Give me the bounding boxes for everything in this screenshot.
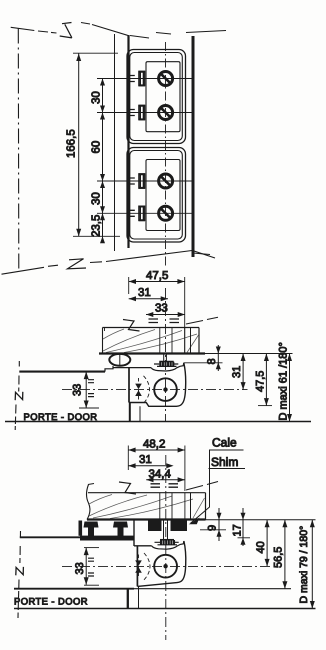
dim 31 line (bottom view) bbox=[128, 465, 170, 467]
plate 2 recess bbox=[146, 160, 180, 231]
top break line bbox=[11, 27, 35, 30]
Z break on frame top bbox=[123, 320, 140, 332]
dim 33 line bbox=[146, 314, 185, 316]
dim D maxi 61/180 (middle right) bbox=[289, 354, 291, 422]
dimension 166,5 line bbox=[78, 54, 80, 237]
door edge vertical (bottom view) bbox=[133, 519, 135, 547]
dim D maxi 79/180 (bottom right) bbox=[311, 520, 313, 609]
svg-text:33: 33 bbox=[74, 562, 86, 574]
svg-text:30: 30 bbox=[91, 192, 103, 205]
svg-text:PORTE - DOOR: PORTE - DOOR bbox=[14, 596, 88, 607]
hinge plate 1 outer bbox=[127, 50, 186, 144]
screw A2 bbox=[159, 106, 173, 120]
frame jamb thick line bbox=[127, 35, 129, 248]
dimension chain line bbox=[102, 79, 104, 244]
dim 33 vertical (bottom view) bbox=[85, 548, 87, 585]
dim 48,2 line bbox=[128, 449, 185, 451]
svg-text:34,4: 34,4 bbox=[149, 469, 172, 481]
svg-text:31: 31 bbox=[139, 454, 152, 466]
door edge below hinge (bottom view) bbox=[127, 589, 129, 609]
profile cut end block bbox=[79, 521, 83, 536]
Z break frame top (bottom view) bbox=[119, 482, 136, 494]
wall centerline left (dash-dot) bbox=[17, 29, 20, 271]
hinge plate 2 outer bbox=[127, 148, 186, 243]
door bottom line (bottom view) bbox=[14, 608, 316, 610]
dim 31 line bbox=[129, 298, 168, 300]
pivot circle (middle) bbox=[154, 378, 177, 401]
dim 34,4 line bbox=[146, 479, 185, 481]
plate centerline vertical (dash-dot) bbox=[165, 42, 167, 266]
frame grain (bottom view) bbox=[89, 495, 205, 519]
dim 17 (bottom right) bbox=[242, 508, 244, 546]
svg-text:40: 40 bbox=[255, 541, 267, 553]
roller ellipse bbox=[109, 354, 130, 366]
frame top edge right bbox=[186, 31, 226, 33]
svg-text:31: 31 bbox=[138, 287, 151, 299]
door top thin line (bottom view) bbox=[20, 536, 80, 538]
svg-text:31: 31 bbox=[231, 366, 243, 378]
door left break (middle) bbox=[18, 361, 21, 392]
svg-text:D maxi 61 /180°: D maxi 61 /180° bbox=[277, 342, 289, 420]
hinge axis centerline (bottom) bbox=[62, 565, 272, 567]
hinge plate 1 inner bbox=[130, 53, 183, 141]
shim bottom stub bbox=[200, 529, 226, 531]
set screw bowtie (middle) bbox=[135, 384, 142, 396]
svg-text:Shim: Shim bbox=[211, 455, 238, 469]
frame right edge (bottom view) bbox=[205, 493, 207, 520]
svg-text:60: 60 bbox=[91, 141, 103, 154]
door bottom line (middle) bbox=[5, 421, 311, 423]
frame bottom reference line bbox=[99, 352, 205, 354]
hinge body (middle view) bbox=[128, 368, 130, 403]
screw nut serrated (bottom view) bbox=[160, 539, 174, 541]
set screw bowtie (bottom) bbox=[135, 560, 142, 572]
svg-text:17: 17 bbox=[232, 524, 244, 536]
screw B1 bbox=[159, 174, 173, 188]
frame grain hatching bbox=[103, 329, 199, 353]
dim 40 (bottom right) bbox=[266, 520, 268, 567]
screw B2 bbox=[159, 206, 173, 220]
frame inner vertical (bottom view) bbox=[190, 493, 192, 520]
equality marks 34,4 bbox=[151, 484, 179, 487]
screw shank through shim (bottom view) bbox=[164, 520, 168, 540]
svg-text:33: 33 bbox=[72, 384, 84, 396]
pivot vertical centerline (middle) bbox=[165, 288, 167, 421]
svg-text:23,5: 23,5 bbox=[91, 215, 103, 237]
hidden hole dashes (middle body) bbox=[144, 376, 150, 403]
screw A1 bbox=[159, 72, 173, 86]
door left break (bottom view) bbox=[19, 531, 22, 563]
bottom break line bbox=[2, 267, 45, 274]
swing dash (bottom view) bbox=[186, 482, 218, 491]
bottom tick right bbox=[193, 253, 210, 255]
dim 56,5 (bottom right) bbox=[284, 520, 286, 589]
svg-text:8: 8 bbox=[206, 358, 218, 364]
svg-text:48,2: 48,2 bbox=[143, 439, 165, 451]
frame jamb thin line bbox=[114, 34, 116, 251]
spring serration (middle) bbox=[164, 354, 167, 362]
frame bottom reference line (bottom view) bbox=[87, 518, 206, 520]
break zigzag top bbox=[60, 23, 72, 38]
frame section top line (bottom view) bbox=[88, 492, 199, 494]
frame section right edge bbox=[198, 328, 200, 354]
door inner web line (bottom view) bbox=[14, 588, 134, 590]
svg-text:30: 30 bbox=[91, 91, 103, 104]
door top face (middle view) bbox=[19, 371, 105, 373]
svg-text:9: 9 bbox=[207, 525, 219, 531]
svg-text:PORTE - DOOR: PORTE - DOOR bbox=[24, 411, 98, 422]
door edge below hinge (middle) bbox=[129, 403, 131, 422]
svg-text:47,5: 47,5 bbox=[146, 270, 168, 282]
hinge plate 2 inner bbox=[130, 151, 183, 240]
screw centerlines horizontal bbox=[97, 79, 192, 214]
countersunk screw side tabs bbox=[130, 76, 135, 217]
svg-text:D maxi 79 / 180°: D maxi 79 / 180° bbox=[298, 526, 310, 604]
dim 31 (middle right) bbox=[242, 354, 244, 390]
dim 33 vertical (middle) bbox=[85, 372, 87, 408]
svg-text:47,5: 47,5 bbox=[255, 371, 267, 392]
frame left cut (bottom view) bbox=[87, 485, 90, 520]
leader from Shim to shim block bbox=[191, 450, 210, 523]
dim 47,5 line bbox=[129, 281, 185, 283]
door profile top bar (bottom view) bbox=[80, 536, 134, 541]
hinge body (bottom view) bbox=[136, 546, 138, 587]
dim 47,5 (middle right) bbox=[265, 354, 267, 406]
equality marks 33 top bbox=[149, 319, 180, 323]
gasket mushroom 1 bbox=[84, 522, 99, 538]
svg-text:Cale: Cale bbox=[212, 436, 237, 450]
svg-text:56,5: 56,5 bbox=[273, 547, 285, 568]
hinge axis centerline (middle) bbox=[62, 389, 248, 391]
dim 9 (bottom right) bbox=[218, 508, 220, 541]
shim block left bbox=[148, 519, 162, 532]
frame section left cut bbox=[102, 328, 104, 354]
shim block right bbox=[171, 519, 188, 532]
pivot vertical centerline (bottom) bbox=[165, 455, 167, 640]
swing dash line bbox=[186, 317, 218, 324]
dim 8 (middle right) bbox=[217, 345, 219, 371]
plate 1 recess bbox=[146, 62, 180, 132]
frame inner vertical bbox=[190, 328, 192, 354]
pivot circle (bottom view) bbox=[154, 555, 177, 578]
svg-text:166,5: 166,5 bbox=[66, 129, 78, 158]
frame outer bold line bbox=[192, 36, 195, 257]
frame section top line bbox=[103, 327, 200, 329]
gasket mushroom 2 bbox=[113, 522, 128, 538]
hidden hole dashes (bottom body) bbox=[144, 553, 150, 580]
